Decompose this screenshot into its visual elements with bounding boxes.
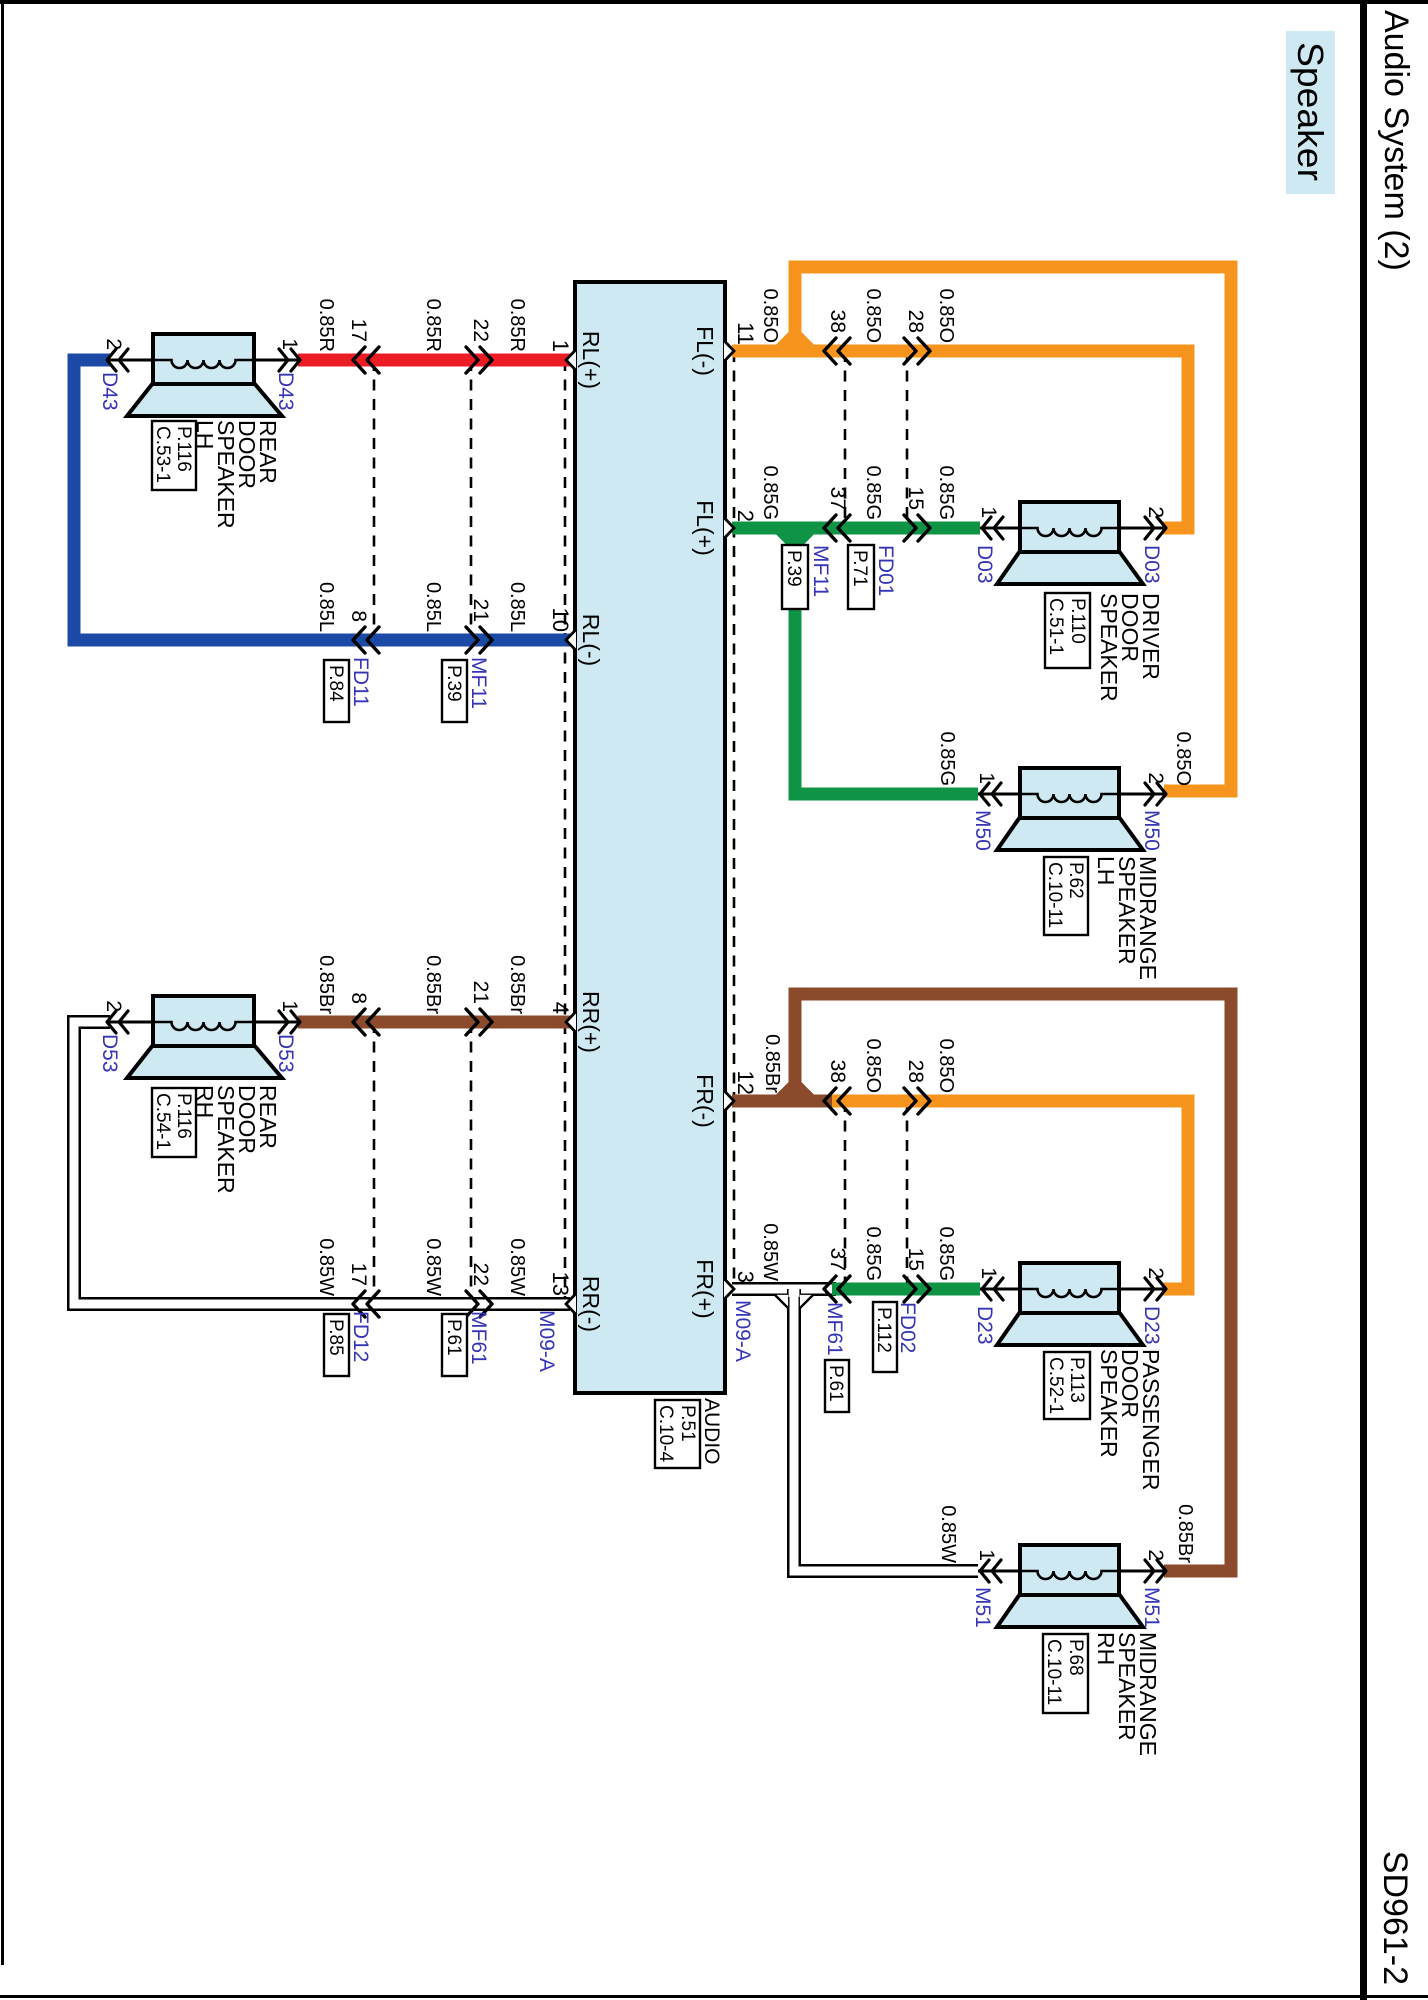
svg-text:SD961-2: SD961-2 bbox=[1376, 1851, 1414, 1985]
connector label MF11 P.39 (bottom) bbox=[442, 657, 490, 722]
pin label RR(+) bbox=[578, 991, 604, 1053]
midrange LH pin 2 label M50 bbox=[1140, 810, 1163, 851]
driver name text bbox=[1096, 593, 1164, 702]
midrange LH pin 2 number bbox=[1144, 772, 1167, 784]
svg-text:FR(-): FR(-) bbox=[692, 1074, 718, 1128]
gauge labels 0.85G on FL(+) bbox=[759, 466, 957, 520]
svg-text:37: 37 bbox=[826, 487, 849, 510]
connector label FD11 P.84 bbox=[324, 657, 372, 722]
svg-text:37: 37 bbox=[826, 1248, 849, 1271]
svg-text:MF11: MF11 bbox=[467, 657, 490, 709]
rear LH pin 2 chevrons bbox=[107, 349, 128, 371]
svg-text:P.61: P.61 bbox=[825, 1365, 846, 1402]
midrange LH pin 1 chevrons bbox=[980, 783, 1001, 805]
unit pin 12 chevron bbox=[724, 1091, 734, 1112]
midrange RH pin 2 chevrons bbox=[1145, 1560, 1166, 1582]
connector label FD12 P.85 bbox=[324, 1311, 372, 1376]
unit pin 3 chevron bbox=[724, 1279, 734, 1300]
svg-text:0.85Br: 0.85Br bbox=[761, 1034, 783, 1093]
midrange LH pin 1 number bbox=[975, 772, 998, 784]
pin label FL(-) bbox=[692, 326, 718, 376]
midrange RH pin line 1 bbox=[978, 1570, 1020, 1573]
pin label RL(+) bbox=[578, 331, 604, 389]
wire FR(-) orange continuation bbox=[832, 1101, 1188, 1289]
passenger pin 1 chevrons bbox=[982, 1278, 1003, 1300]
splice 21 on RL(-) bbox=[466, 627, 492, 653]
rear RH pin 2 number bbox=[102, 1000, 125, 1012]
svg-text:28: 28 bbox=[904, 1060, 927, 1083]
connector label FD02 P.112 bbox=[873, 1302, 919, 1372]
svg-text:0.85G: 0.85G bbox=[759, 466, 781, 520]
connector label MF61 P.61 (top) bbox=[823, 1302, 849, 1412]
driver pin 1 number bbox=[977, 506, 1000, 518]
rear RH pin line 2 bbox=[109, 1021, 153, 1024]
label AUDIO bbox=[700, 1398, 723, 1465]
svg-text:2: 2 bbox=[1144, 1267, 1167, 1279]
splice number 28 FL bbox=[904, 310, 927, 333]
svg-text:0.85Br: 0.85Br bbox=[315, 955, 337, 1014]
svg-text:P.112: P.112 bbox=[873, 1307, 894, 1353]
svg-text:0.85O: 0.85O bbox=[862, 289, 884, 343]
page border left edge bbox=[0, 0, 1428, 4]
splice number 8 RL- bbox=[347, 610, 370, 622]
svg-text:0.85R: 0.85R bbox=[315, 299, 337, 352]
ref box P.68 C.10-11 bbox=[1043, 1634, 1088, 1713]
svg-text:4: 4 bbox=[548, 1002, 573, 1014]
svg-text:21: 21 bbox=[469, 599, 492, 622]
rear LH pin line 2 bbox=[109, 359, 153, 362]
unit pin number 13 bbox=[548, 1272, 573, 1296]
svg-text:0.85W: 0.85W bbox=[506, 1238, 528, 1296]
connector label FD01 P.71 bbox=[848, 545, 897, 609]
junction FL(-) branch bbox=[776, 332, 815, 346]
wire FL(-) orange loop to midrange LH bbox=[795, 267, 1231, 791]
driver pin 2 label D03 bbox=[1140, 545, 1163, 584]
svg-text:0.85Br: 0.85Br bbox=[506, 955, 528, 1014]
svg-text:12: 12 bbox=[733, 1071, 758, 1095]
midrange RH pin 1 label M51 bbox=[971, 1587, 994, 1628]
passenger pin 2 number bbox=[1144, 1267, 1167, 1279]
svg-text:FD12: FD12 bbox=[349, 1311, 372, 1362]
svg-text:1: 1 bbox=[975, 1549, 998, 1561]
midrange RH pin line 2 bbox=[1119, 1570, 1164, 1573]
svg-text:38: 38 bbox=[826, 1060, 849, 1083]
wire FL(+) green branch to midrange LH bbox=[795, 528, 978, 794]
driver pin line 1 bbox=[980, 527, 1020, 530]
svg-text:MF11: MF11 bbox=[809, 545, 832, 597]
svg-text:0.85Br: 0.85Br bbox=[1174, 1504, 1196, 1563]
gauge labels 0.85O on FR(-) bbox=[862, 1039, 957, 1093]
splice 15 on FL(+) bbox=[904, 515, 930, 541]
svg-text:P.71: P.71 bbox=[849, 550, 870, 587]
splice 15 on FR(+) bbox=[904, 1276, 930, 1302]
rear LH pin 1 chevrons bbox=[279, 349, 300, 371]
splice 8 on RL(-) bbox=[353, 627, 379, 653]
svg-text:FD02: FD02 bbox=[896, 1302, 919, 1353]
unit pin number 4 bbox=[548, 1002, 573, 1014]
dashed connector line bottom pins row bbox=[564, 360, 567, 1304]
unit pin 11 chevron bbox=[724, 341, 734, 362]
rear RH pin 1 label D53 bbox=[274, 1034, 297, 1073]
svg-text:0.85Br: 0.85Br bbox=[422, 955, 444, 1014]
splice 28 on FL(-) bbox=[904, 338, 930, 364]
wire FR(-) brown stub bbox=[732, 1095, 838, 1108]
svg-text:D43: D43 bbox=[274, 372, 297, 411]
pin label RR(-) bbox=[578, 1276, 604, 1332]
midrange RH pin 2 label M51 bbox=[1140, 1587, 1163, 1628]
svg-text:0.85L: 0.85L bbox=[315, 582, 337, 632]
svg-text:P.39: P.39 bbox=[783, 550, 804, 587]
unit pin 2 chevron bbox=[724, 518, 734, 539]
unit pin number 12 bbox=[733, 1071, 758, 1095]
svg-text:22: 22 bbox=[469, 1263, 492, 1286]
rear LH pin 1 number bbox=[278, 338, 301, 350]
svg-text:2: 2 bbox=[1144, 772, 1167, 784]
svg-text:C.51-1: C.51-1 bbox=[1045, 598, 1066, 655]
page border bottom edge bbox=[1, 0, 4, 1965]
ref box P.51 C.10-4 bbox=[655, 1400, 700, 1468]
svg-text:D23: D23 bbox=[973, 1306, 996, 1345]
svg-text:17: 17 bbox=[347, 1263, 370, 1286]
junction FL(+) branch bbox=[776, 534, 815, 548]
svg-text:D53: D53 bbox=[98, 1034, 121, 1073]
svg-text:28: 28 bbox=[904, 310, 927, 333]
pin label FL(+) bbox=[692, 500, 718, 556]
unit pin number 1 bbox=[548, 340, 573, 352]
svg-text:P.39: P.39 bbox=[443, 665, 464, 702]
svg-text:2: 2 bbox=[733, 510, 758, 522]
svg-text:P.116: P.116 bbox=[173, 1093, 194, 1139]
gauge labels 0.85Br on RR(+) bbox=[315, 955, 528, 1014]
splice number 38 FR bbox=[826, 1060, 849, 1083]
pin label RL(-) bbox=[578, 614, 604, 666]
gauge labels 0.85G on FR(+) bbox=[862, 1227, 957, 1281]
svg-text:2: 2 bbox=[102, 1000, 125, 1012]
svg-text:1: 1 bbox=[977, 1267, 1000, 1279]
svg-text:13: 13 bbox=[548, 1272, 573, 1296]
svg-text:0.85R: 0.85R bbox=[506, 299, 528, 352]
junction FR(+) branch bbox=[775, 1287, 814, 1309]
splice 38 on FL(-) bbox=[824, 338, 850, 364]
speaker DRIVER DOOR SPEAKER (D03) bbox=[997, 502, 1143, 584]
svg-text:M50: M50 bbox=[971, 810, 994, 851]
svg-text:0.85G: 0.85G bbox=[862, 1227, 884, 1281]
midrange LH pin 1 label M50 bbox=[971, 810, 994, 851]
svg-text:FR(+): FR(+) bbox=[692, 1259, 718, 1318]
speaker REAR DOOR SPEAKER RH (D53) bbox=[127, 996, 282, 1078]
svg-text:0.85L: 0.85L bbox=[506, 582, 528, 632]
junction FR(-) branch bbox=[776, 1082, 815, 1096]
splice number 21 RR+ bbox=[469, 981, 492, 1004]
unit pin 10 chevron bbox=[566, 630, 576, 651]
svg-text:15: 15 bbox=[904, 1248, 927, 1271]
wire RR(-) white bbox=[74, 1022, 570, 1304]
midrange LH pin line 2 bbox=[1119, 793, 1164, 796]
splice number 17 RL+ bbox=[347, 319, 370, 342]
rear LH pin 1 label D43 bbox=[274, 372, 297, 411]
speaker PASSENGER DOOR SPEAKER (D23) bbox=[997, 1263, 1143, 1345]
diagram number SD961-2 bbox=[1376, 1851, 1414, 1985]
audio unit box bbox=[575, 282, 725, 1393]
svg-text:10: 10 bbox=[548, 608, 573, 632]
svg-text:1: 1 bbox=[977, 506, 1000, 518]
driver pin 1 chevrons bbox=[982, 517, 1003, 539]
svg-text:RL(-): RL(-) bbox=[578, 614, 604, 666]
rear RH pin line 1 bbox=[254, 1021, 300, 1024]
ref box P.116 C.54-1 bbox=[152, 1088, 196, 1157]
ref box P.116 C.53-1 bbox=[152, 421, 196, 490]
dashed connector line bottom FD row RL bbox=[373, 360, 376, 640]
wire FR(-) brown loop to midrange RH bbox=[795, 994, 1231, 1571]
svg-text:M51: M51 bbox=[971, 1587, 994, 1628]
svg-text:C.54-1: C.54-1 bbox=[152, 1093, 173, 1150]
svg-text:D03: D03 bbox=[1140, 545, 1163, 584]
svg-text:0.85W: 0.85W bbox=[937, 1505, 959, 1563]
speaker REAR DOOR SPEAKER LH (D43) bbox=[127, 334, 282, 416]
Speaker title highlight bbox=[1286, 31, 1335, 194]
midrange RH name text bbox=[1093, 1632, 1161, 1756]
splice 38 on FR(-) bbox=[824, 1088, 850, 1114]
svg-text:P.61: P.61 bbox=[443, 1319, 464, 1356]
svg-text:8: 8 bbox=[347, 992, 370, 1004]
ref box P.110 C.51-1 bbox=[1045, 593, 1090, 668]
unit pin number 10 bbox=[548, 608, 573, 632]
rear LH pin 2 number bbox=[102, 338, 125, 350]
dashed connector line top MF row FR bbox=[844, 1101, 847, 1289]
splice number 15 FR bbox=[904, 1248, 927, 1271]
gauge label 0.85W midrange RH branch bbox=[937, 1505, 959, 1563]
svg-text:0.85W: 0.85W bbox=[315, 1238, 337, 1296]
svg-text:P.113: P.113 bbox=[1066, 1357, 1087, 1403]
connector label M09-A (pin 3) bbox=[731, 1300, 754, 1362]
svg-text:D03: D03 bbox=[973, 545, 996, 584]
unit pin 13 chevron bbox=[566, 1294, 576, 1315]
svg-text:P.85: P.85 bbox=[325, 1319, 346, 1356]
svg-text:P.84: P.84 bbox=[325, 665, 346, 702]
wire FL(+) green main bbox=[732, 522, 980, 535]
wire FR(+) white branch to midrange RH bbox=[794, 1289, 978, 1571]
splice number 8 RR+ bbox=[347, 992, 370, 1004]
svg-text:0.85O: 0.85O bbox=[759, 289, 781, 343]
wire RL(+) red bbox=[298, 354, 570, 367]
svg-text:15: 15 bbox=[904, 487, 927, 510]
passenger pin line 2 bbox=[1119, 1288, 1164, 1291]
svg-text:1: 1 bbox=[548, 340, 573, 352]
unit pin number 11 bbox=[733, 322, 758, 345]
svg-text:C.10-11: C.10-11 bbox=[1044, 862, 1065, 928]
wire FL(-) orange main bbox=[732, 351, 1188, 528]
rear LH pin 2 label D43 bbox=[98, 372, 121, 411]
svg-text:D23: D23 bbox=[1140, 1306, 1163, 1345]
passenger pin line 1 bbox=[980, 1288, 1020, 1291]
wire FR(+) green continuation bbox=[832, 1283, 980, 1296]
svg-text:C.52-1: C.52-1 bbox=[1045, 1357, 1066, 1414]
rear LH pin line 1 bbox=[254, 359, 300, 362]
svg-text:C.53-1: C.53-1 bbox=[152, 426, 173, 483]
svg-text:1: 1 bbox=[278, 1000, 301, 1012]
splice 22 on RR(-) bbox=[466, 1291, 492, 1317]
splice 17 on RL(+) bbox=[353, 347, 379, 373]
splice 37 on FL(+) bbox=[824, 515, 850, 541]
rear RH pin 2 label D53 bbox=[98, 1034, 121, 1073]
svg-text:C.10-11: C.10-11 bbox=[1043, 1639, 1064, 1705]
svg-text:P.51: P.51 bbox=[677, 1405, 698, 1442]
splice number 21 RL- bbox=[469, 599, 492, 622]
speaker MIDRANGE SPEAKER LH (M50) bbox=[997, 768, 1143, 850]
svg-text:SPEAKER: SPEAKER bbox=[1096, 593, 1122, 702]
midrange RH pin 1 chevrons bbox=[980, 1560, 1001, 1582]
ref box P.113 C.52-1 bbox=[1044, 1352, 1090, 1419]
connector label MF61 P.61 (bottom) bbox=[442, 1311, 490, 1376]
dashed connector line top MF row FL bbox=[844, 351, 847, 528]
svg-text:RL(+): RL(+) bbox=[578, 331, 604, 389]
svg-text:M09-A: M09-A bbox=[535, 1310, 558, 1372]
svg-text:0.85O: 0.85O bbox=[1172, 732, 1194, 786]
dashed connector line bottom MF row RR bbox=[470, 1022, 473, 1304]
svg-text:SPEAKER: SPEAKER bbox=[1096, 1349, 1122, 1458]
svg-text:FL(-): FL(-) bbox=[692, 326, 718, 376]
gauge label 0.85Br on FR(-) stub bbox=[761, 1034, 783, 1093]
svg-text:D43: D43 bbox=[98, 372, 121, 411]
svg-text:MF61: MF61 bbox=[467, 1311, 490, 1365]
splice 8 on RR(+) bbox=[353, 1009, 379, 1035]
svg-text:P.62: P.62 bbox=[1065, 862, 1086, 899]
midrange LH pin 2 chevrons bbox=[1145, 783, 1166, 805]
svg-text:0.85O: 0.85O bbox=[935, 289, 957, 343]
wire RR(+) brown bbox=[298, 1016, 570, 1029]
gauge labels 0.85O on FL(-) bbox=[759, 289, 957, 343]
svg-text:1: 1 bbox=[975, 772, 998, 784]
svg-text:8: 8 bbox=[347, 610, 370, 622]
svg-text:3: 3 bbox=[733, 1271, 758, 1283]
pin label FR(-) bbox=[692, 1074, 718, 1128]
passenger pin 1 number bbox=[977, 1267, 1000, 1279]
svg-text:M51: M51 bbox=[1140, 1587, 1163, 1628]
rear LH name text bbox=[192, 420, 281, 529]
wire RL(-) blue bbox=[74, 360, 570, 640]
svg-text:0.85G: 0.85G bbox=[935, 1227, 957, 1281]
driver pin 1 label D03 bbox=[973, 545, 996, 584]
svg-text:P.68: P.68 bbox=[1065, 1639, 1086, 1676]
gauge labels 0.85R on RL(+) bbox=[315, 299, 528, 352]
svg-text:0.85O: 0.85O bbox=[935, 1039, 957, 1093]
driver pin line 2 bbox=[1119, 527, 1164, 530]
splice number 28 FR bbox=[904, 1060, 927, 1083]
svg-text:LH: LH bbox=[1093, 856, 1119, 885]
svg-text:2: 2 bbox=[1144, 506, 1167, 518]
page border right edge bbox=[0, 1995, 1428, 1998]
svg-text:0.85G: 0.85G bbox=[935, 466, 957, 520]
wire FR(+) white stub bbox=[732, 1282, 836, 1296]
rear RH pin 2 chevrons bbox=[107, 1011, 128, 1033]
svg-text:D53: D53 bbox=[274, 1034, 297, 1073]
svg-text:2: 2 bbox=[1144, 1549, 1167, 1561]
dashed connector line top pins row bbox=[733, 351, 736, 1289]
midrange LH name text bbox=[1093, 856, 1161, 980]
connector label M09-A (pin 13) bbox=[535, 1310, 558, 1372]
passenger pin 2 label D23 bbox=[1140, 1306, 1163, 1345]
splice 21 on RR(+) bbox=[466, 1009, 492, 1035]
svg-text:0.85G: 0.85G bbox=[936, 732, 958, 786]
unit pin 4 chevron bbox=[566, 1012, 576, 1033]
svg-text:RR(-): RR(-) bbox=[578, 1276, 604, 1332]
svg-text:0.85O: 0.85O bbox=[862, 1039, 884, 1093]
speaker MIDRANGE SPEAKER RH (M51) bbox=[997, 1545, 1143, 1627]
rear RH pin 1 number bbox=[278, 1000, 301, 1012]
midrange LH pin line 1 bbox=[978, 793, 1020, 796]
svg-text:0.85W: 0.85W bbox=[422, 1238, 444, 1296]
svg-text:Audio System (2): Audio System (2) bbox=[1377, 10, 1415, 271]
svg-text:C.10-4: C.10-4 bbox=[655, 1405, 676, 1462]
svg-text:FD11: FD11 bbox=[349, 657, 372, 707]
splice number 37 FL bbox=[826, 487, 849, 510]
svg-text:0.85G: 0.85G bbox=[862, 466, 884, 520]
svg-text:RR(+): RR(+) bbox=[578, 991, 604, 1053]
dashed connector line top FD row FR bbox=[906, 1101, 909, 1289]
svg-text:1: 1 bbox=[278, 338, 301, 350]
unit pin number 3 bbox=[733, 1271, 758, 1283]
svg-text:RH: RH bbox=[1093, 1632, 1119, 1665]
splice number 22 RR- bbox=[469, 1263, 492, 1286]
ref box P.62 C.10-11 bbox=[1044, 857, 1088, 935]
unit pin number 2 bbox=[733, 510, 758, 522]
splice number 37 FR bbox=[826, 1248, 849, 1271]
svg-text:MF61: MF61 bbox=[823, 1302, 846, 1356]
dashed connector line top FD row FL bbox=[906, 351, 909, 528]
gauge label 0.85O midrange LH loop bbox=[1172, 732, 1194, 786]
dashed connector line bottom MF row RL bbox=[470, 360, 473, 640]
splice 37 on FR(+) bbox=[824, 1276, 850, 1302]
gauge label 0.85Br midrange RH loop bbox=[1174, 1504, 1196, 1563]
svg-text:P.116: P.116 bbox=[173, 426, 194, 472]
svg-text:M50: M50 bbox=[1140, 810, 1163, 851]
svg-text:FD01: FD01 bbox=[874, 545, 897, 596]
splice 22 on RL(+) bbox=[466, 347, 492, 373]
svg-text:21: 21 bbox=[469, 981, 492, 1004]
svg-text:M09-A: M09-A bbox=[731, 1300, 754, 1362]
splice 28 on FR(-) bbox=[904, 1088, 930, 1114]
svg-text:38: 38 bbox=[826, 310, 849, 333]
splice number 22 RL+ bbox=[469, 319, 492, 342]
title Audio System (2) bbox=[1377, 10, 1415, 271]
gauge labels 0.85W on RR(-) bbox=[315, 1238, 528, 1296]
passenger pin 2 chevrons bbox=[1145, 1278, 1166, 1300]
driver pin 2 number bbox=[1144, 506, 1167, 518]
svg-text:2: 2 bbox=[102, 338, 125, 350]
svg-text:AUDIO: AUDIO bbox=[700, 1398, 723, 1465]
midrange RH pin 1 number bbox=[975, 1549, 998, 1561]
connector label MF11 P.39 (top) bbox=[782, 545, 832, 609]
svg-text:FL(+): FL(+) bbox=[692, 500, 718, 556]
rear RH pin 1 chevrons bbox=[279, 1011, 300, 1033]
gauge label 0.85W on FR(+) stub bbox=[759, 1223, 781, 1281]
splice number 38 FL bbox=[826, 310, 849, 333]
gauge labels 0.85L on RL(-) bbox=[315, 582, 528, 632]
splice number 15 FL bbox=[904, 487, 927, 510]
splice number 17 RR- bbox=[347, 1263, 370, 1286]
dashed connector line bottom FD row RR bbox=[373, 1022, 376, 1304]
driver pin 2 chevrons bbox=[1145, 517, 1166, 539]
midrange RH pin 2 number bbox=[1144, 1549, 1167, 1561]
svg-text:11: 11 bbox=[733, 322, 758, 345]
pin label FR(+) bbox=[692, 1259, 718, 1318]
svg-text:P.110: P.110 bbox=[1067, 598, 1088, 644]
svg-text:Speaker: Speaker bbox=[1290, 42, 1331, 181]
svg-text:0.85W: 0.85W bbox=[759, 1223, 781, 1281]
unit pin 1 chevron bbox=[566, 350, 576, 371]
gauge label 0.85G midrange LH branch bbox=[936, 732, 958, 786]
splice 17 on RR(-) bbox=[353, 1291, 379, 1317]
